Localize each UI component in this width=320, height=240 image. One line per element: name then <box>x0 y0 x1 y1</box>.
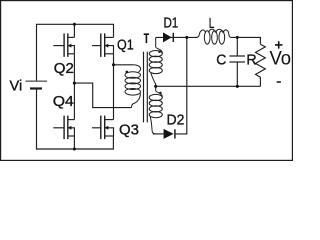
svg-text:C: C <box>216 52 226 69</box>
svg-text:R: R <box>246 52 256 69</box>
svg-text:Vo: Vo <box>269 48 291 69</box>
svg-text:Q2: Q2 <box>54 60 74 77</box>
svg-text:D1: D1 <box>163 15 178 32</box>
svg-text:Q1: Q1 <box>117 36 134 53</box>
svg-text:Q3: Q3 <box>119 122 139 139</box>
svg-text:D2: D2 <box>167 112 185 129</box>
svg-text:Q4: Q4 <box>53 93 74 110</box>
svg-text:L: L <box>209 15 215 32</box>
svg-text:Vi: Vi <box>10 78 23 95</box>
